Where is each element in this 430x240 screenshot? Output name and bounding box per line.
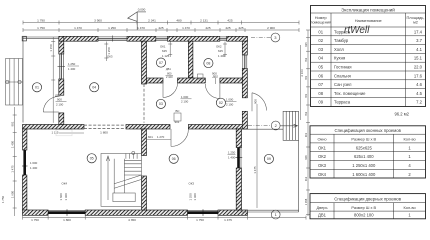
top wall: corner col (59, 36, 64, 41)
svg-text:7.2: 7.2 (416, 100, 422, 105)
window OK3 top (98, 36, 127, 42)
svg-text:3.7: 3.7 (416, 38, 422, 43)
svg-text:425: 425 (227, 18, 232, 22)
svg-text:ОК1: ОК1 (318, 145, 327, 150)
svg-text:1 250: 1 250 (108, 26, 116, 30)
svg-text:4.1: 4.1 (416, 47, 422, 52)
svg-text:1 475: 1 475 (253, 166, 257, 174)
svg-text:1 600х1 400: 1 600х1 400 (352, 172, 376, 177)
svg-text:425: 425 (158, 26, 163, 30)
svg-text:ДВ1: ДВ1 (318, 213, 327, 218)
svg-text:м2: м2 (413, 20, 418, 25)
svg-text:1 058: 1 058 (304, 198, 308, 205)
svg-text:1 250: 1 250 (68, 62, 76, 66)
door from 07 down (163, 83, 178, 98)
svg-text:1 600: 1 600 (30, 161, 38, 165)
svg-text:ДВ1: ДВ1 (166, 67, 171, 71)
wall x141.5-146.5 between kitchen and sanuzel (142, 41, 147, 84)
svg-text:05: 05 (318, 65, 323, 70)
window OK3 in left house wall y54-79 (58, 54, 66, 79)
svg-text:901: 901 (175, 120, 180, 124)
svg-text:1 750: 1 750 (1, 195, 5, 203)
terrace corner post (22, 36, 26, 41)
svg-text:ОК4: ОК4 (318, 172, 327, 177)
svg-text:08: 08 (206, 61, 210, 65)
svg-text:17.4: 17.4 (414, 29, 423, 34)
svg-text:1 000: 1 000 (226, 98, 234, 102)
svg-text:Холл: Холл (334, 47, 344, 52)
right exterior wall x242.3-247.3 (242, 41, 247, 55)
mid horizontal wall y124.5-129 : terrace bottom + segs (23, 125, 85, 130)
top dimension line 1 (23, 21, 299, 25)
svg-text:Дверь: Дверь (316, 205, 327, 210)
axis circle 1 (bottom right) (271, 210, 280, 219)
svg-text:01: 01 (318, 29, 323, 34)
svg-text:03: 03 (318, 47, 323, 52)
svg-text:22.0: 22.0 (414, 65, 423, 70)
up arrow (107, 156, 109, 200)
svg-text:1 400: 1 400 (64, 193, 68, 201)
svg-text:17.6: 17.6 (414, 73, 423, 78)
svg-text:Спецификация дверных проемов: Спецификация дверных проемов (334, 196, 402, 201)
window OK2 right wall y55-68.4 (243, 55, 247, 68)
svg-text:Наименование: Наименование (355, 18, 382, 23)
svg-text:Кухня: Кухня (334, 56, 345, 61)
door in mid wall into room 06 (171, 129, 188, 146)
svg-text:05: 05 (90, 157, 94, 161)
svg-text:762: 762 (304, 57, 308, 62)
svg-text:Размер Ш х В: Размер Ш х В (351, 137, 376, 142)
svg-text:625: 625 (162, 49, 167, 53)
svg-text:800х2 100: 800х2 100 (354, 213, 374, 218)
top wall seg (64, 36, 98, 41)
svg-text:Экспликация помещений: Экспликация помещений (341, 6, 395, 12)
small dims in rooms 07/08 (168, 42, 227, 58)
svg-text:1 800: 1 800 (63, 218, 71, 221)
svg-text:425: 425 (225, 26, 230, 30)
top flight treads (125, 154, 127, 159)
dashed open boundary x144 y84-122.8 (143, 84, 145, 123)
elevation flag 0.000 (128, 12, 146, 30)
svg-text:2 131: 2 131 (200, 18, 208, 22)
svg-text:900: 900 (57, 98, 62, 102)
svg-text:ОК2: ОК2 (318, 154, 327, 159)
door right wall to terrace 09 (252, 93, 267, 112)
stair well (113, 159, 115, 193)
wall y77.6-83.8 under rooms 07/08 (147, 78, 164, 83)
svg-text:1 470: 1 470 (182, 26, 190, 30)
axis circle 3 (top right) (251, 37, 271, 39)
svg-text:ОК2: ОК2 (216, 45, 222, 49)
door from hall into 08 area (205, 83, 220, 99)
svg-text:781: 781 (304, 93, 308, 98)
svg-text:625: 625 (304, 42, 308, 47)
window OK3 bottom (188, 209, 219, 216)
svg-text:625х625: 625х625 (356, 145, 373, 150)
Table 1 (311, 6, 426, 107)
svg-text:901: 901 (304, 132, 308, 137)
left house wall (terrace/house) x 59-63.8 (59, 41, 64, 54)
svg-text:625: 625 (218, 49, 223, 53)
svg-text:Тамбур: Тамбур (334, 38, 349, 43)
Table 3 (310, 194, 426, 219)
treads right column (124, 159, 141, 161)
svg-text:Окно: Окно (317, 137, 326, 142)
svg-text:15.1: 15.1 (414, 56, 423, 61)
svg-text:ОК3: ОК3 (189, 182, 195, 186)
window OK2 top (220, 37, 227, 41)
bottom wall y210-215.3 (23, 210, 49, 215)
svg-text:01: 01 (35, 86, 39, 90)
window OK4 left wall y150-175 (22, 150, 28, 175)
svg-text:4 350: 4 350 (128, 218, 136, 221)
svg-text:помещения: помещения (310, 20, 331, 25)
window OK4 bottom (48, 209, 85, 216)
door from terrace (arc into terrace) (43, 97, 59, 113)
svg-text:1 400: 1 400 (193, 193, 197, 201)
svg-text:Спальня: Спальня (334, 73, 351, 78)
window OK1 top (156, 37, 168, 41)
svg-text:03: 03 (159, 102, 163, 106)
svg-text:Сан узел: Сан узел (334, 82, 352, 87)
svg-text:1 115: 1 115 (51, 130, 58, 134)
svg-text:1 400: 1 400 (11, 140, 15, 148)
svg-text:Кол-во: Кол-во (404, 205, 416, 210)
svg-text:0,000: 0,000 (138, 8, 146, 12)
wall x141.5-146.5 along stair (142, 129, 147, 156)
svg-text:ДВ1: ДВ1 (55, 94, 61, 98)
axis circle 2 (mid right) (248, 125, 271, 127)
svg-text:04: 04 (318, 56, 323, 61)
svg-text:425: 425 (205, 26, 210, 30)
svg-text:781: 781 (304, 75, 308, 80)
svg-text:601: 601 (148, 135, 153, 139)
svg-text:09: 09 (318, 100, 323, 105)
svg-text:2 100: 2 100 (181, 100, 189, 104)
svg-text:07: 07 (318, 82, 323, 87)
svg-text:02: 02 (219, 101, 223, 105)
svg-text:1 475: 1 475 (224, 218, 232, 221)
svg-text:1 270: 1 270 (157, 135, 165, 139)
exterior stair top right (283, 111, 298, 140)
svg-text:3 900: 3 900 (94, 18, 102, 22)
dashed opening 1800 in mid wall (84, 125, 126, 128)
svg-text:ВС: ВС (176, 109, 180, 113)
svg-text:906: 906 (304, 155, 308, 160)
svg-text:08: 08 (318, 91, 323, 96)
diagonal break (114, 175, 141, 184)
svg-text:4.6: 4.6 (416, 82, 422, 87)
terrace 09 inner dim (300, 45, 302, 120)
svg-text:Гостиная: Гостиная (334, 65, 352, 70)
svg-text:ОК1: ОК1 (160, 45, 166, 49)
svg-text:1 600: 1 600 (11, 190, 15, 198)
svg-text:ОК4: ОК4 (62, 182, 68, 186)
svg-text:Кол-во: Кол-во (404, 137, 416, 142)
svg-text:06: 06 (172, 157, 176, 161)
right vertical dimension line (306, 30, 310, 216)
svg-text:4.5: 4.5 (416, 91, 422, 96)
svg-text:625х1 400: 625х1 400 (354, 154, 374, 159)
Table 2 (310, 126, 426, 178)
svg-text:1 400: 1 400 (228, 155, 236, 159)
svg-text:1 250: 1 250 (107, 47, 111, 55)
bottom dimension line (23, 216, 307, 220)
svg-text:1 470: 1 470 (74, 26, 82, 30)
svg-text:1 600: 1 600 (59, 193, 63, 201)
small fixtures in sanuzel (166, 67, 173, 79)
svg-text:1 750: 1 750 (31, 218, 39, 221)
svg-text:2 100: 2 100 (56, 103, 64, 107)
left exterior wall below y122 (23, 129, 27, 150)
svg-text:1 150: 1 150 (49, 44, 53, 52)
svg-text:96.2 м2: 96.2 м2 (394, 111, 409, 116)
svg-text:Спецификация оконных проемов: Спецификация оконных проемов (335, 128, 402, 133)
bedroom east wall x236.2-241.5 (236, 129, 241, 148)
svg-text:480: 480 (176, 18, 181, 22)
wall between 07 and 08 x188.8-192.9 (188, 41, 193, 77)
svg-text:Терраса: Терраса (334, 29, 351, 34)
svg-text:1 400: 1 400 (30, 166, 38, 170)
svg-text:1 000: 1 000 (181, 95, 189, 99)
svg-text:1 750: 1 750 (37, 26, 45, 30)
svg-text:02: 02 (318, 38, 323, 43)
svg-text:1 250х1 400: 1 250х1 400 (352, 163, 376, 168)
svg-text:901: 901 (11, 121, 15, 126)
svg-text:800: 800 (167, 72, 172, 76)
svg-text:1 800: 1 800 (100, 130, 108, 134)
svg-text:1 400: 1 400 (68, 67, 76, 71)
svg-text:1 250: 1 250 (228, 151, 236, 155)
svg-text:09: 09 (267, 157, 271, 161)
svg-text:1 475: 1 475 (11, 165, 15, 173)
top dimension line 2 (23, 28, 299, 32)
svg-text:2 100: 2 100 (226, 102, 234, 106)
svg-text:06: 06 (318, 73, 323, 78)
svg-text:ОК3: ОК3 (318, 163, 327, 168)
left vertical dimension line (13, 107, 17, 216)
svg-text:07: 07 (159, 61, 163, 65)
svg-text:900: 900 (254, 99, 258, 104)
svg-text:2 100: 2 100 (166, 75, 173, 79)
svg-text:425: 425 (238, 26, 243, 30)
svg-text:1 470: 1 470 (137, 26, 145, 30)
svg-text:Тех. помещение: Тех. помещение (334, 91, 366, 96)
svg-text:2 900: 2 900 (267, 26, 275, 30)
svg-text:Терраса: Терраса (334, 100, 351, 105)
svg-text:912: 912 (304, 176, 308, 181)
svg-text:04: 04 (92, 86, 96, 90)
svg-text:1 790: 1 790 (37, 18, 45, 22)
svg-text:762: 762 (304, 111, 308, 116)
svg-text:Размер Ш х В: Размер Ш х В (351, 205, 376, 210)
inner vertical dim below top window (104, 42, 108, 62)
svg-text:2 341: 2 341 (148, 18, 156, 22)
svg-text:1 750: 1 750 (196, 218, 204, 221)
window OK3 in bedroom east wall (236, 148, 243, 169)
svg-text:2 163: 2 163 (300, 69, 304, 77)
inner vertical dim in terrace (51, 37, 55, 123)
svg-text:1 250: 1 250 (189, 193, 193, 201)
